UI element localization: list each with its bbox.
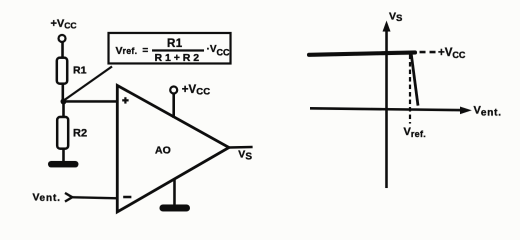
ground (below R2) <box>48 161 79 168</box>
svg-text:R1: R1 <box>73 64 87 76</box>
wire VCC terminal to R1 <box>61 42 64 58</box>
ground (below op-amp) <box>159 204 190 211</box>
wire op-amp bottom edge to ground <box>173 179 176 206</box>
input open arrowhead <box>65 193 72 202</box>
wire R2 to ground <box>62 148 65 162</box>
graph dashes toward +VCC label <box>420 51 436 54</box>
pointer line from node to formula box <box>65 66 113 100</box>
svg-text:+VCC: +VCC <box>51 18 77 31</box>
svg-text:Vref.: Vref. <box>403 126 426 139</box>
graph dashed Vref marker line <box>409 55 411 124</box>
op-amp + input sign <box>122 97 128 103</box>
node A (junction R1/R2/+input) <box>61 98 67 104</box>
resistor R1 <box>57 58 67 84</box>
svg-text:R1+R2: R1+R2 <box>155 52 202 64</box>
formula box border <box>109 33 231 64</box>
+VCC terminal circle (op-amp) <box>170 86 177 93</box>
svg-text:Vent.: Vent. <box>32 192 60 205</box>
wire VCC terminal to op-amp top edge <box>172 94 175 118</box>
svg-text:VS: VS <box>389 11 402 24</box>
wire R1 to node <box>62 84 65 102</box>
svg-text:R1: R1 <box>167 38 183 50</box>
svg-text:+VCC: +VCC <box>182 84 211 98</box>
graph horizontal axis Vent <box>310 108 462 110</box>
svg-text:AO: AO <box>155 144 171 156</box>
graph horizontal axis arrowhead <box>460 107 472 115</box>
svg-text:R2: R2 <box>73 127 87 139</box>
wire Vent to op-amp - input <box>72 197 117 198</box>
graph transition line at Vref <box>411 52 418 105</box>
svg-text:VS: VS <box>238 148 252 162</box>
formula fraction bar <box>152 49 204 51</box>
graph vertical axis arrowhead <box>383 21 391 32</box>
wire node to R2 <box>62 101 65 118</box>
svg-text:+VCC: +VCC <box>438 47 466 60</box>
op-amp AO triangle <box>117 85 229 212</box>
svg-text:Vref.=: Vref.= <box>116 45 149 57</box>
resistor R2 <box>57 117 68 149</box>
op-amp - input sign <box>123 196 131 199</box>
+VCC terminal circle (left rail) <box>59 35 66 42</box>
output wire <box>229 146 253 149</box>
wire node to op-amp + input <box>64 100 118 103</box>
svg-text:Vent.: Vent. <box>473 105 501 119</box>
graph vertical axis VS <box>385 28 388 188</box>
graph +VCC output level line <box>309 52 415 54</box>
